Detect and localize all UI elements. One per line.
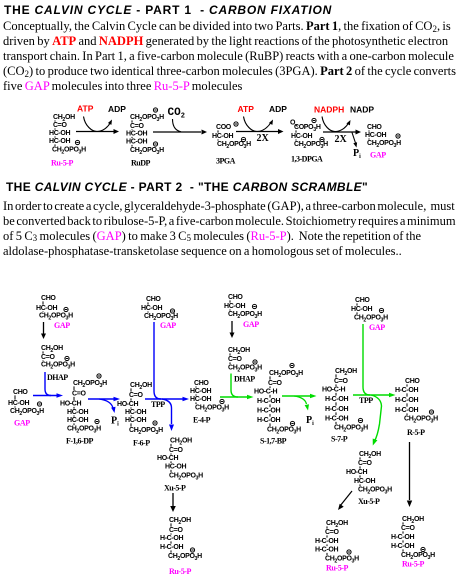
- svg-text:CH2OH: CH2OH: [169, 517, 191, 526]
- blue branch to Pi (phosphatase): [99, 399, 116, 413]
- svg-text:CHO: CHO: [367, 124, 382, 131]
- svg-text:F-1,6-DP: F-1,6-DP: [66, 437, 93, 446]
- svg-text:Pi: Pi: [353, 148, 361, 160]
- svg-text:CH2OH: CH2OH: [359, 451, 381, 460]
- svg-text:HC-OH: HC-OH: [67, 417, 88, 424]
- molecule Xu-5-P 1 (xylulose-5-phosphate): [157, 438, 203, 493]
- svg-text:HO-C-H: HO-C-H: [254, 389, 277, 396]
- molecule S-1,7-BP (sedoheptulose-1,7-bisphosphate): [254, 363, 303, 445]
- svg-text:CH2OPO3H: CH2OPO3H: [404, 416, 438, 425]
- svg-text:ADP: ADP: [108, 104, 126, 114]
- svg-text:H-C-OH: H-C-OH: [391, 534, 414, 541]
- svg-text:CH2OPO3H: CH2OPO3H: [269, 370, 303, 379]
- molecule 1,3-DPGA body: [291, 118, 328, 163]
- svg-text:C=O: C=O: [53, 122, 67, 129]
- blue arrow transketolase TPP to E-4-P: [145, 397, 189, 401]
- molecule Xu-5-P 2: [346, 451, 392, 506]
- svg-text:CHO: CHO: [146, 296, 161, 303]
- green arrow E-4-P + DHAP2 to S-1,7-BP: [220, 395, 254, 399]
- svg-text:COO: COO: [216, 124, 232, 131]
- svg-text:CH2OPO3H: CH2OPO3H: [169, 473, 203, 482]
- svg-text:C=O: C=O: [228, 356, 242, 363]
- title: THE CALVIN CYCLE - PART 1 - CARBON FIXATION: [4, 3, 332, 17]
- svg-text:CH2OPO3H: CH2OPO3H: [130, 147, 164, 156]
- svg-text:H-C-OH: H-C-OH: [391, 543, 414, 550]
- svg-text:HC-OH: HC-OH: [36, 305, 57, 312]
- svg-text:CH2OPO3H: CH2OPO3H: [354, 315, 388, 324]
- svg-text:CH2OPO3H: CH2OPO3H: [367, 140, 401, 149]
- reaction arrow 1,3-DPGA to GAP: [323, 130, 361, 135]
- svg-text:HC-OH: HC-OH: [141, 305, 162, 312]
- svg-text:ATP: ATP: [77, 103, 94, 113]
- svg-text:CHO: CHO: [228, 294, 243, 301]
- blue arrow F-1,6-DP to F-6-P: [88, 397, 120, 401]
- svg-text:CH2OPO3H: CH2OPO3H: [217, 141, 251, 150]
- svg-text:HC-OH: HC-OH: [125, 417, 146, 424]
- svg-text:C=O: C=O: [169, 527, 183, 534]
- svg-text:CH2OPO3H: CH2OPO3H: [129, 427, 163, 436]
- svg-text:HC-OH: HC-OH: [190, 388, 211, 395]
- svg-text:COPO3H: COPO3H: [294, 124, 321, 133]
- molecule DHAP 1: [41, 345, 75, 382]
- svg-text:F-6-P: F-6-P: [133, 439, 150, 448]
- molecule GAP 3 (top row): [224, 294, 262, 329]
- svg-text:HC-OH: HC-OH: [365, 132, 386, 139]
- svg-text:CH2OPO3H: CH2OPO3H: [10, 408, 44, 417]
- svg-text:C=O: C=O: [169, 447, 183, 454]
- black arrow GAP3 down to DHAP2: [230, 321, 235, 338]
- svg-text:HC-OH: HC-OH: [190, 396, 211, 403]
- reaction arrow 3PGA to 1,3-DPGA: [236, 129, 284, 134]
- svg-text:HC-OH: HC-OH: [49, 138, 70, 145]
- molecule S-7-P (sedoheptulose-7-phosphate): [322, 368, 368, 444]
- green branch down to Xu-5-P 2: [371, 395, 382, 441]
- svg-text:CH2OH: CH2OH: [170, 438, 192, 447]
- svg-text:HC-OH: HC-OH: [351, 306, 372, 313]
- paragraph 2: [3, 199, 456, 259]
- svg-text:GAP: GAP: [160, 321, 176, 330]
- svg-text:CH2OPO3H: CH2OPO3H: [358, 487, 392, 496]
- svg-text:CH2OPO3H: CH2OPO3H: [73, 380, 107, 389]
- arrow to Pi released: [352, 133, 357, 148]
- molecule 3PGA (3-phosphoglycerate): [212, 122, 251, 166]
- svg-text:DHAP: DHAP: [234, 375, 255, 384]
- svg-text:Ru-5-P: Ru-5-P: [51, 159, 74, 168]
- svg-text:CH2OPO3H: CH2OPO3H: [130, 114, 164, 123]
- svg-text:C=O: C=O: [41, 354, 55, 361]
- svg-text:CH2OPO3H: CH2OPO3H: [294, 141, 328, 150]
- curved line CO2 into arrow: [173, 119, 182, 132]
- paragraph 1: [3, 19, 456, 94]
- svg-text:S-1,7-BP: S-1,7-BP: [260, 437, 287, 446]
- svg-text:ADP: ADP: [269, 104, 287, 114]
- svg-text:HO-CH: HO-CH: [157, 455, 178, 462]
- molecule R-5-P (ribose-5-phosphate): [395, 378, 438, 437]
- molecule Ru-5-P 3 (bottom right): [391, 516, 435, 569]
- curved arrow NADPH to NADP: [322, 117, 351, 132]
- curved arrow ATP to ADP, reaction 2: [244, 117, 274, 132]
- svg-text:S-7-P: S-7-P: [331, 435, 348, 444]
- svg-text:DHAP: DHAP: [47, 373, 68, 382]
- molecule F-6-P (fructose-6-phosphate): [117, 382, 163, 448]
- svg-text:2X: 2X: [257, 133, 270, 144]
- svg-text:ATP: ATP: [238, 104, 255, 114]
- svg-text:R-5-P: R-5-P: [407, 428, 425, 437]
- svg-text:CHO: CHO: [41, 295, 56, 302]
- green line DHAP2 to aldolase arrow: [231, 374, 238, 398]
- molecule E-4-P (erythrose-4-phosphate): [190, 380, 229, 425]
- black arrow R-5-P down to Ru-5-P 3: [407, 442, 412, 507]
- svg-text:C=O: C=O: [325, 529, 339, 536]
- svg-text:CH2OPO3H: CH2OPO3H: [267, 427, 301, 436]
- svg-text:H-C-OH: H-C-OH: [395, 397, 418, 404]
- green arrow transketolase 2 to R-5-P: [353, 393, 396, 397]
- svg-text:HC-OH: HC-OH: [224, 303, 245, 310]
- title: THE CALVIN CYCLE - PART 2 - "THE CARBON SCRAMBLE": [6, 180, 368, 194]
- svg-text:Xu-5-P: Xu-5-P: [358, 497, 380, 506]
- svg-text:CH2OH: CH2OH: [335, 368, 357, 377]
- black arrow GAP1 down to DHAP1: [41, 322, 46, 339]
- svg-text:C=O: C=O: [358, 460, 372, 467]
- svg-text:2X: 2X: [335, 134, 348, 145]
- svg-text:GAP: GAP: [369, 323, 385, 332]
- svg-text:HC-OH: HC-OH: [67, 409, 88, 416]
- svg-text:GAP: GAP: [14, 419, 30, 428]
- svg-text:H-C-OH: H-C-OH: [325, 406, 348, 413]
- svg-text:H-C-OH: H-C-OH: [160, 544, 183, 551]
- svg-text:H-C-OH: H-C-OH: [257, 398, 280, 405]
- svg-text:NADP: NADP: [350, 104, 374, 114]
- svg-text:C=O: C=O: [401, 525, 415, 532]
- svg-text:CH2OPO3H: CH2OPO3H: [41, 362, 75, 371]
- molecule F-1,6-DP (fructose-1,6-bisphosphate): [60, 374, 107, 446]
- molecule GAP 2 (top row): [141, 296, 178, 330]
- svg-text:C=O: C=O: [72, 391, 86, 398]
- molecule GAP, diagram 1: [365, 124, 401, 160]
- green line GAP4 down to TPP junction 2: [363, 324, 370, 395]
- green arrow S-1,7-BP to S-7-P: [282, 394, 317, 398]
- green branch to Pi (phosphatase 2): [294, 396, 309, 411]
- svg-text:TPP: TPP: [151, 400, 165, 409]
- svg-text:HC-OH: HC-OH: [165, 464, 186, 471]
- svg-text:CHO: CHO: [355, 297, 370, 304]
- svg-text:GAP: GAP: [370, 151, 386, 160]
- svg-text:CH2OPO3H: CH2OPO3H: [52, 147, 86, 156]
- svg-text:C=O: C=O: [129, 392, 143, 399]
- svg-text:HC-OH: HC-OH: [126, 131, 147, 138]
- svg-text:H-C-OH: H-C-OH: [315, 538, 338, 545]
- svg-text:H-C-OH: H-C-OH: [325, 416, 348, 423]
- svg-text:E-4-P: E-4-P: [193, 416, 211, 425]
- svg-text:CH2OPO3H: CH2OPO3H: [228, 311, 262, 320]
- svg-text:CHO: CHO: [194, 380, 209, 387]
- svg-text:Ru-5-P: Ru-5-P: [326, 564, 349, 573]
- svg-text:HC-OH: HC-OH: [291, 133, 312, 140]
- svg-text:H-C-OH: H-C-OH: [315, 547, 338, 554]
- svg-text:HC-OH: HC-OH: [354, 478, 375, 485]
- molecule Ru-5-P 1 (bottom left): [160, 517, 202, 576]
- svg-text:CH2OPO3H: CH2OPO3H: [228, 365, 262, 374]
- svg-text:HO-CH: HO-CH: [60, 401, 81, 408]
- svg-text:HC-OH: HC-OH: [212, 133, 233, 140]
- blue branch down to Xu-5-P: [162, 399, 172, 424]
- molecule Ru-5-P 2 (bottom middle): [315, 520, 359, 573]
- svg-text:H-C-OH: H-C-OH: [325, 396, 348, 403]
- svg-text:NADPH: NADPH: [314, 104, 344, 114]
- svg-text:C=O: C=O: [334, 378, 348, 385]
- molecule GAP 1 (top row): [36, 295, 73, 330]
- svg-text:1,3-DPGA: 1,3-DPGA: [291, 155, 323, 164]
- molecule GAP (far left): [8, 389, 44, 428]
- svg-text:HC-OH: HC-OH: [8, 400, 29, 407]
- blue line DHAP1 to aldolase arrow: [45, 372, 51, 396]
- svg-text:CH2OH: CH2OH: [402, 516, 424, 525]
- svg-text:HC-OH: HC-OH: [126, 139, 147, 146]
- svg-text:Pi: Pi: [306, 415, 314, 427]
- svg-text:H-C-OH: H-C-OH: [160, 535, 183, 542]
- svg-text:3PGA: 3PGA: [216, 157, 236, 166]
- svg-text:HO-CH: HO-CH: [346, 469, 367, 476]
- svg-text:Ru-5-P: Ru-5-P: [169, 567, 192, 576]
- curved arrow ATP to ADP: [84, 117, 113, 132]
- svg-text:CH2OPO3H: CH2OPO3H: [39, 313, 73, 322]
- svg-text:GAP: GAP: [243, 320, 259, 329]
- molecule Ru-5-P (ribulose-5-phosphate), diagram 1: [49, 114, 86, 168]
- molecule 1,3-DPGA: [290, 120, 298, 127]
- blue arrow GAP left + DHAP1 to F-1,6-DP: [33, 393, 63, 398]
- svg-text:H-C-OH: H-C-OH: [257, 408, 280, 415]
- svg-text:Xu-5-P: Xu-5-P: [164, 484, 186, 493]
- svg-text:TPP: TPP: [359, 396, 373, 405]
- svg-text:Pi: Pi: [111, 416, 119, 428]
- svg-text:CH2OPO3H: CH2OPO3H: [168, 553, 202, 562]
- svg-text:Ru-5-P: Ru-5-P: [402, 560, 425, 569]
- svg-text:GAP: GAP: [54, 321, 70, 330]
- svg-text:H-C-OH: H-C-OH: [395, 387, 418, 394]
- svg-text:HC-OH: HC-OH: [125, 409, 146, 416]
- svg-text:CH2OPO3H: CH2OPO3H: [334, 425, 368, 434]
- molecule DHAP 2: [228, 347, 262, 384]
- svg-text:CH2OH: CH2OH: [130, 382, 152, 391]
- svg-text:HC-OH: HC-OH: [49, 130, 70, 137]
- svg-text:RuDP: RuDP: [131, 159, 151, 168]
- svg-text:H-C-OH: H-C-OH: [257, 417, 280, 424]
- svg-text:CHO: CHO: [13, 389, 28, 396]
- blue line GAP2 down to TPP junction: [154, 322, 161, 399]
- svg-text:HO-CH: HO-CH: [117, 401, 138, 408]
- svg-text:CH2OPO3H: CH2OPO3H: [195, 405, 229, 414]
- svg-text:CH2OH: CH2OH: [228, 347, 250, 356]
- svg-text:C=O: C=O: [130, 123, 144, 130]
- molecule RuDP (ribulose bisphosphate): [126, 108, 164, 168]
- svg-text:CHO: CHO: [405, 378, 420, 385]
- svg-text:C=O: C=O: [268, 380, 282, 387]
- molecule GAP 4 (top right): [351, 297, 388, 332]
- svg-text:CH2OH: CH2OH: [326, 520, 348, 529]
- black diagonal arrow Xu-5-P 2 to Ru-5-P 2: [338, 491, 352, 510]
- svg-text:H-C-OH: H-C-OH: [395, 407, 418, 414]
- svg-text:HO-C-H: HO-C-H: [322, 387, 345, 394]
- svg-text:CH2OPO3H: CH2OPO3H: [67, 426, 101, 435]
- reaction arrow Ru-5-P to RuDP: [76, 129, 119, 134]
- black arrow Xu-5-P 1 down to Ru-5-P 1: [170, 493, 176, 512]
- svg-text:CO2: CO2: [168, 107, 185, 120]
- svg-text:CH2OH: CH2OH: [41, 345, 63, 354]
- reaction arrow RuDP to 3PGA: [153, 130, 207, 135]
